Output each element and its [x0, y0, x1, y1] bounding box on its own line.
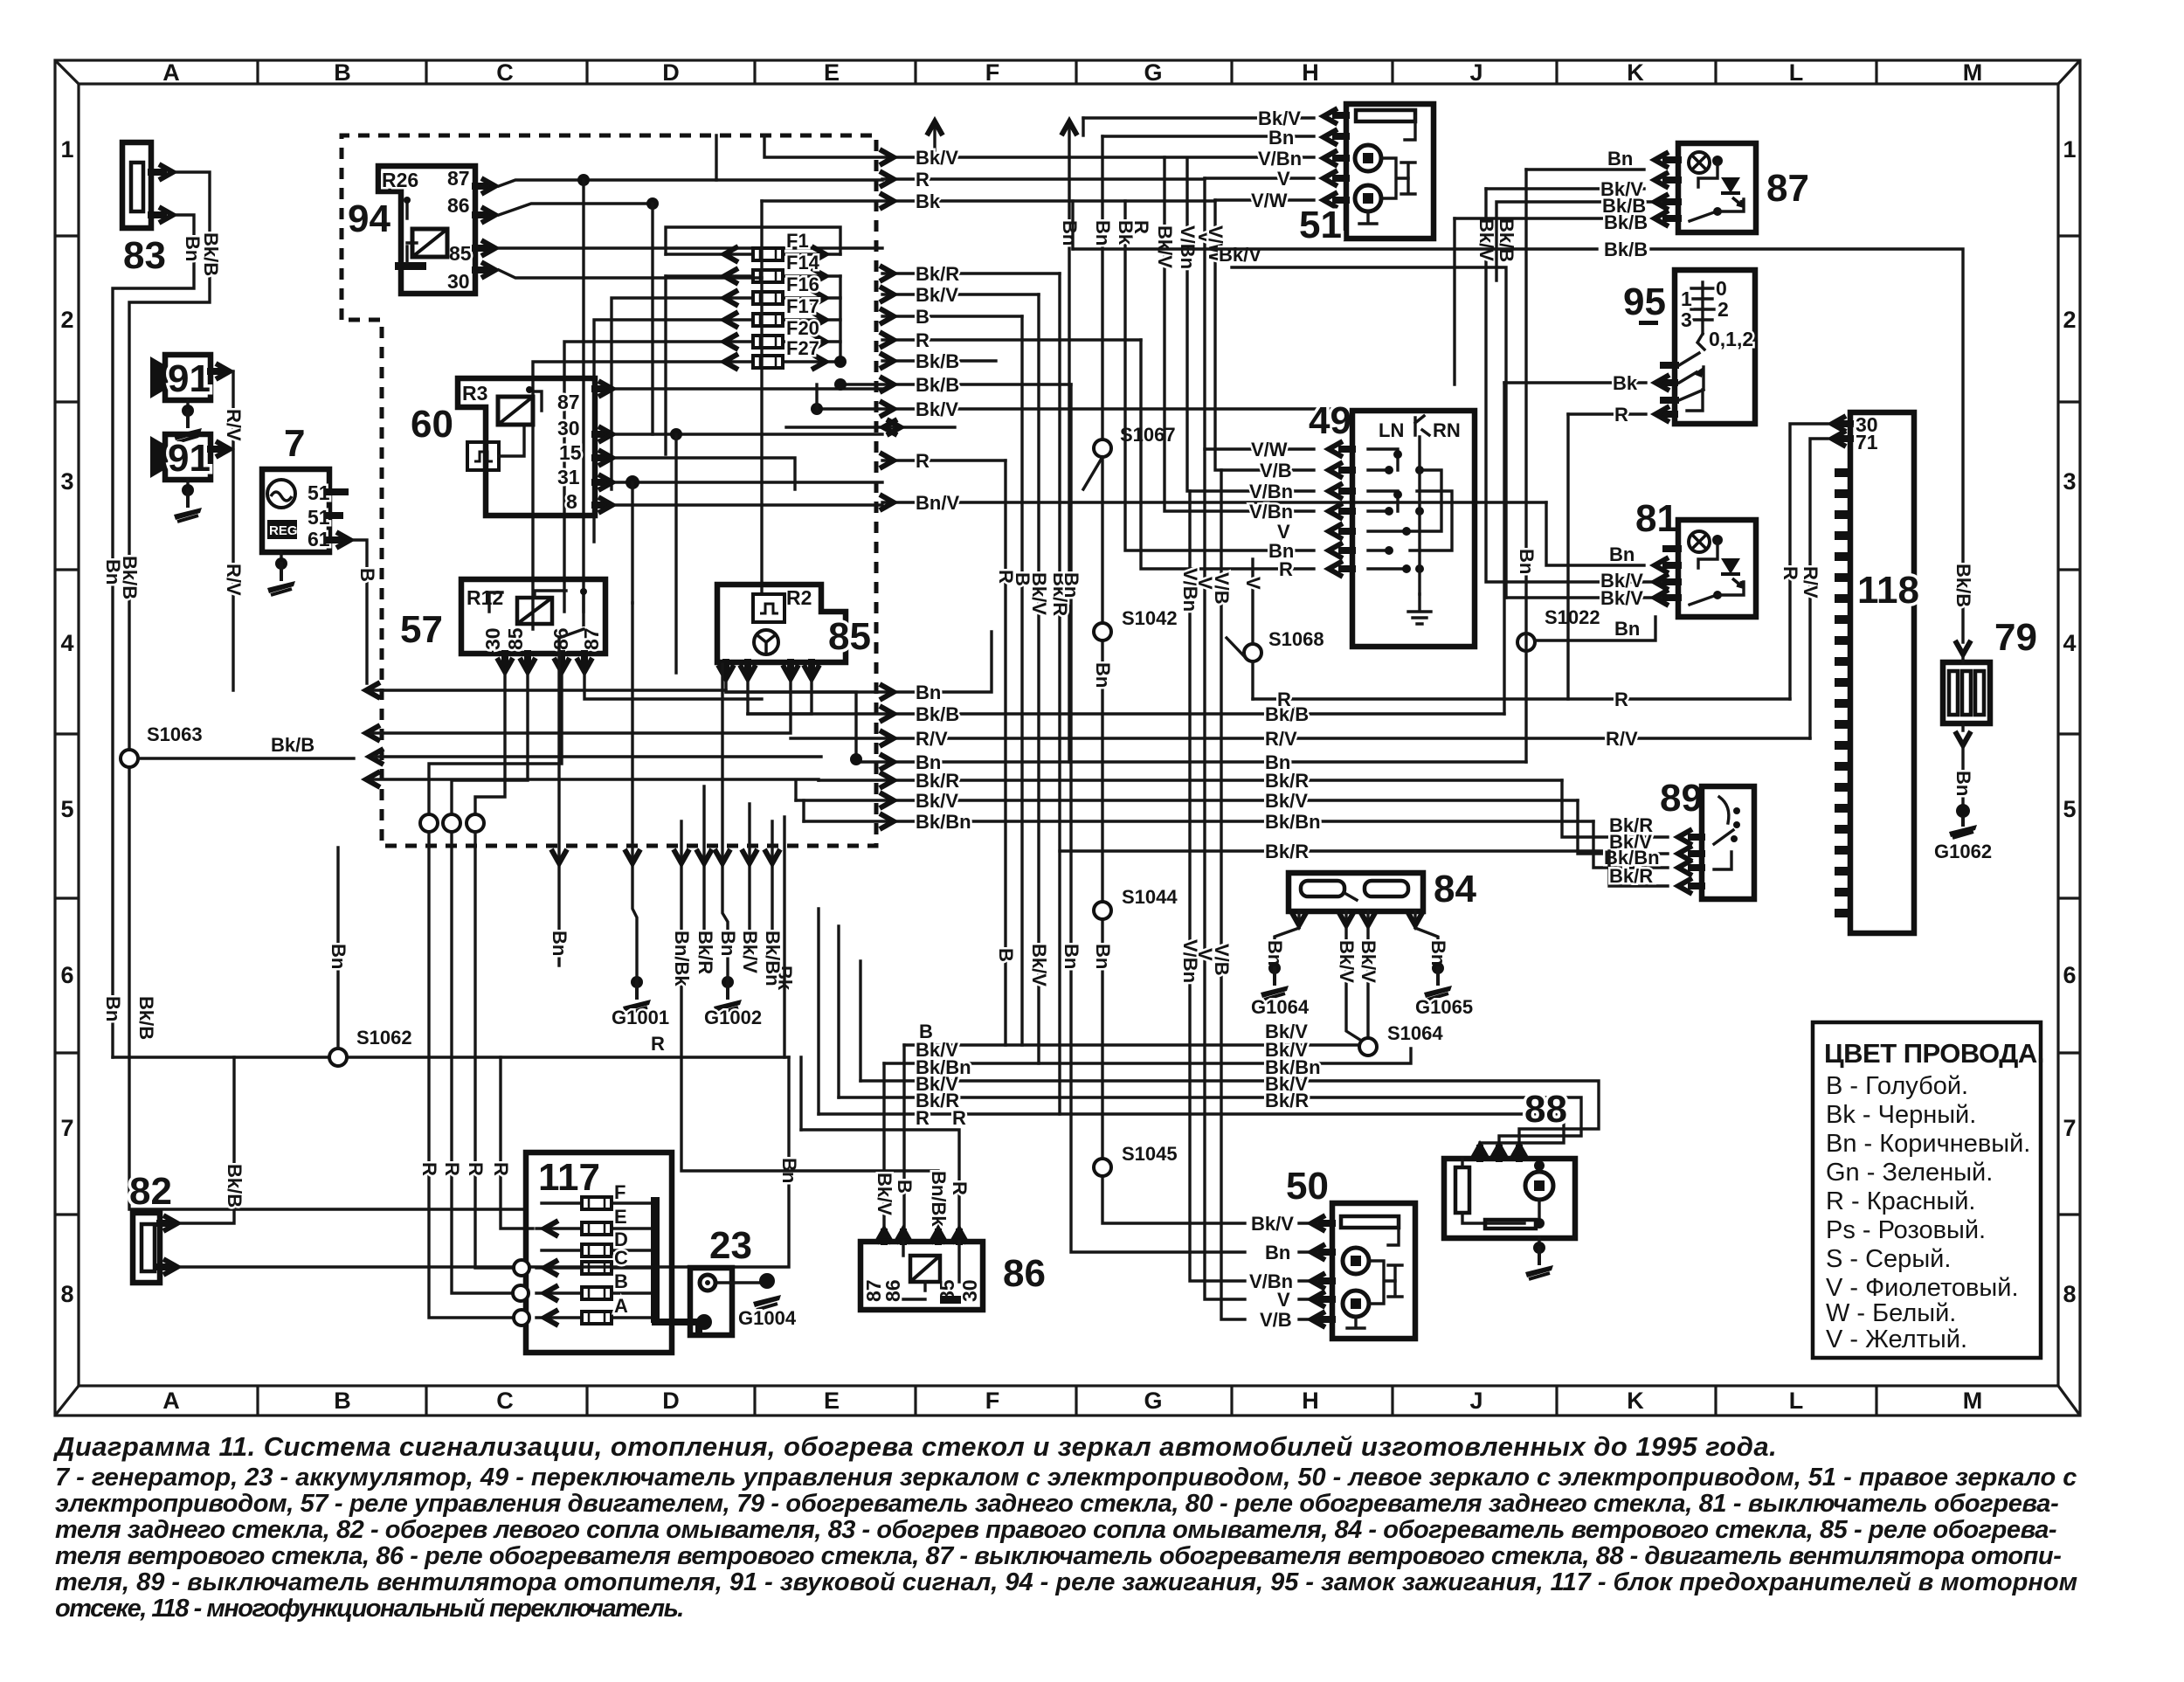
- svg-text:C: C: [496, 59, 514, 86]
- svg-text:Bn/Bk: Bn/Bk: [928, 1171, 950, 1227]
- svg-text:R: R: [1277, 689, 1291, 710]
- ground G1062: [1956, 804, 1970, 818]
- svg-text:S1064: S1064: [1387, 1022, 1443, 1044]
- wire Bk vertical: [1125, 201, 1314, 550]
- wire R bottom to 86: [801, 1130, 959, 1230]
- svg-text:Bk/V: Bk/V: [874, 1173, 895, 1215]
- svg-text:Bk/V: Bk/V: [1219, 244, 1261, 266]
- wire Bk/V to 87 pin2: [1486, 187, 1644, 190]
- svg-text:E: E: [614, 1206, 627, 1228]
- svg-text:50: 50: [1286, 1165, 1329, 1208]
- fuse row B: [536, 1291, 651, 1294]
- svg-text:Bk/R: Bk/R: [1265, 841, 1309, 862]
- wire R vertical to 49: [1141, 340, 1314, 569]
- junction dot: [646, 197, 659, 210]
- ground G1064: [1261, 962, 1289, 1000]
- relay 85 pins down: [726, 662, 812, 671]
- wire Bn vertical with up arrow: [1068, 125, 1070, 762]
- svg-text:Bk/V: Bk/V: [1358, 940, 1379, 983]
- svg-text:F20: F20: [786, 317, 819, 339]
- svg-text:86: 86: [447, 194, 470, 217]
- relay 57 coil: [517, 598, 552, 624]
- svg-text:S1062: S1062: [356, 1027, 412, 1049]
- svg-text:A: A: [614, 1295, 628, 1317]
- fuse F16: [666, 273, 840, 306]
- fuse row A: [536, 1316, 651, 1319]
- wire Bk/Bn mid: [804, 820, 1593, 822]
- svg-text:F1: F1: [786, 230, 809, 252]
- component 82 heated washer jet left: [129, 1170, 177, 1283]
- svg-text:Bn: Bn: [1427, 940, 1449, 966]
- svg-text:57: 57: [400, 608, 443, 651]
- wire 94 pin87 to R bus: [499, 180, 882, 186]
- wire Bk/Bn down: [771, 821, 773, 944]
- svg-text:23: 23: [709, 1224, 752, 1267]
- svg-text:15: 15: [559, 441, 582, 464]
- ignition 95 box: [1675, 270, 1755, 424]
- svg-text:Bk/B: Bk/B: [1952, 564, 1974, 607]
- wire V vertical: [1205, 178, 1314, 449]
- relay 86 arrows into box: [876, 1229, 892, 1243]
- svg-text:R - Красный.: R - Красный.: [1826, 1187, 1975, 1215]
- mirror 51 motor 2: [1355, 185, 1381, 211]
- svg-text:51: 51: [1299, 204, 1342, 246]
- wire Bn middle vertical to 50: [1071, 384, 1322, 1252]
- switch 87 diode: [1721, 177, 1743, 206]
- wire Bk/B from 83 upper pin: [129, 172, 526, 1209]
- wire Bk/V mid: [796, 799, 1578, 801]
- row numbers left: [60, 136, 73, 1307]
- column dividers top band: [258, 60, 1876, 84]
- svg-text:Bk/Bn: Bk/Bn: [762, 931, 784, 986]
- svg-text:Bn: Bn: [1092, 662, 1114, 688]
- relay 94 switch: [405, 203, 408, 218]
- svg-text:Bk/Bn: Bk/Bn: [1265, 811, 1321, 833]
- svg-text:Bn: Bn: [549, 931, 570, 956]
- fan 88 motor: [1525, 1172, 1553, 1200]
- wire Bk/B row: [882, 359, 996, 362]
- wire R/V from horns down: [232, 371, 234, 690]
- wire Bk/V bottom2: [839, 1097, 1581, 1152]
- svg-text:3: 3: [2063, 468, 2076, 495]
- svg-text:V/Bn: V/Bn: [1179, 939, 1201, 983]
- relay 94 pins: [475, 186, 487, 270]
- relay 85 box: [717, 585, 846, 662]
- node S1044: [1094, 902, 1111, 919]
- wire Bk/Bn to 89 pin3: [1593, 821, 1668, 868]
- relay 86 box: [860, 1242, 983, 1310]
- svg-text:V/Bn: V/Bn: [1249, 501, 1293, 523]
- heater 79 box: [1943, 662, 1990, 723]
- relay 85 fan circle: [754, 630, 778, 654]
- wire 94 pin86: [499, 204, 653, 215]
- wire harness line 2: [371, 682, 791, 733]
- node S1042: [1094, 623, 1111, 640]
- svg-text:Bk/V: Bk/V: [916, 790, 958, 812]
- relay 94 box: [378, 166, 475, 294]
- svg-text:R: R: [949, 1181, 971, 1195]
- svg-text:S1068: S1068: [1268, 628, 1324, 650]
- svg-text:электроприводом, 57 - реле упр: электроприводом, 57 - реле управления дв…: [55, 1490, 2058, 1518]
- heater 84 box: [1289, 873, 1423, 911]
- svg-text:Bk/V: Bk/V: [916, 398, 958, 420]
- svg-text:J: J: [1469, 59, 1482, 86]
- component 83 heated washer jet right: [122, 142, 173, 277]
- wire Bk/R low: [1060, 849, 1609, 852]
- wire Bk/B from S1063 to connector: [138, 757, 354, 759]
- svg-text:R/V: R/V: [1800, 566, 1821, 599]
- vertical mesh wires center-left: [632, 135, 762, 673]
- svg-text:2: 2: [60, 307, 73, 333]
- switch 49 box: [1352, 411, 1475, 647]
- svg-text:Bk/Bn: Bk/Bn: [916, 811, 971, 833]
- svg-text:2: 2: [1717, 298, 1729, 321]
- border corner diagonals: [55, 60, 2080, 1416]
- svg-text:Bk/V: Bk/V: [739, 931, 761, 973]
- wire Bn S1022 to 81: [1535, 617, 1655, 640]
- svg-text:91: 91: [168, 357, 211, 400]
- svg-text:2: 2: [2063, 307, 2076, 333]
- svg-text:31: 31: [557, 466, 580, 488]
- row dividers right band: [2058, 236, 2080, 1215]
- svg-text:8: 8: [566, 490, 577, 513]
- switch 81 pins: [1666, 549, 1678, 598]
- wire Bk/V bottom: [884, 1049, 1411, 1063]
- svg-text:87: 87: [580, 627, 603, 650]
- wire Bk/R bottom: [819, 1114, 1564, 1152]
- wire Bk/B long row to M column: [1073, 249, 1963, 642]
- switch 89 box: [1702, 786, 1754, 899]
- svg-text:R: R: [952, 1107, 966, 1129]
- wire R middle vertical: [1004, 460, 1006, 1045]
- svg-text:Bk/V: Bk/V: [1600, 587, 1643, 609]
- wire B bottom: [904, 1043, 1363, 1046]
- wire Bk/B from 82 upper pin up: [181, 1057, 234, 1223]
- svg-text:Bn: Bn: [1265, 1242, 1290, 1263]
- svg-text:Bk/V: Bk/V: [1476, 218, 1497, 261]
- svg-text:B: B: [995, 948, 1017, 962]
- svg-text:F16: F16: [786, 273, 819, 295]
- svg-text:R: R: [1279, 558, 1293, 580]
- svg-text:E: E: [824, 59, 840, 86]
- svg-text:S1022: S1022: [1545, 606, 1600, 628]
- svg-text:88: 88: [1524, 1088, 1567, 1131]
- wire Bn to 87 pin1: [1526, 168, 1644, 170]
- svg-text:G1064: G1064: [1251, 996, 1310, 1018]
- fuse row F: [542, 1201, 651, 1204]
- svg-text:F27: F27: [786, 337, 819, 359]
- svg-text:R2: R2: [786, 586, 812, 609]
- fuse F17: [666, 295, 840, 328]
- column dividers bottom band: [258, 1386, 1876, 1416]
- wire V/B riser to 50: [1221, 470, 1322, 1319]
- relay 94 coil: [412, 229, 447, 257]
- svg-text:82: 82: [129, 1170, 172, 1213]
- wire Bn/V row: [882, 501, 1546, 503]
- svg-text:A: A: [162, 1388, 180, 1414]
- ground under 7: [280, 552, 282, 564]
- switch 89 pins: [1691, 837, 1702, 886]
- svg-text:B - Голубой.: B - Голубой.: [1826, 1072, 1968, 1100]
- svg-text:7: 7: [284, 422, 305, 465]
- svg-text:Bk/B: Bk/B: [1496, 218, 1517, 262]
- svg-text:R: R: [441, 1162, 463, 1176]
- wire V/Bn vertical: [1187, 158, 1314, 491]
- svg-text:REG.: REG.: [269, 523, 301, 538]
- svg-text:V/Bn: V/Bn: [1179, 568, 1201, 612]
- svg-text:Bn: Bn: [328, 944, 349, 969]
- svg-text:Bn: Bn: [1061, 944, 1082, 969]
- switch 81 bulb: [1689, 531, 1710, 552]
- horn 91 upper: [150, 355, 230, 400]
- svg-text:K: K: [1627, 1388, 1644, 1414]
- svg-text:B: B: [334, 1388, 351, 1414]
- wire Bn mid2: [856, 760, 1526, 763]
- mirror 51 pins: [1336, 115, 1346, 200]
- svg-text:1: 1: [60, 136, 73, 163]
- svg-text:Bk/V: Bk/V: [1028, 944, 1050, 986]
- wire Bk/R to 89 pin1: [1562, 780, 1668, 837]
- svg-text:RN: RN: [1433, 419, 1461, 441]
- node S1062: [329, 1049, 347, 1066]
- svg-text:87: 87: [447, 167, 470, 190]
- wire Bk/B row2: [840, 383, 1071, 385]
- relay 60 box: [458, 378, 595, 516]
- svg-text:F17: F17: [786, 295, 819, 317]
- svg-text:Bk/B: Bk/B: [1604, 239, 1648, 260]
- svg-text:G: G: [1144, 1388, 1162, 1414]
- svg-text:30: 30: [481, 627, 504, 650]
- node S1068: [1244, 644, 1261, 661]
- heater 84 pins: [1299, 911, 1415, 918]
- svg-text:81: 81: [1635, 497, 1678, 540]
- switch 87 contact: [1690, 212, 1714, 221]
- ground under 88: [1538, 1238, 1540, 1248]
- long horizontal wire with S1062: [113, 1056, 789, 1058]
- svg-text:R: R: [916, 169, 930, 190]
- svg-text:Bn: Bn: [1268, 127, 1294, 149]
- svg-text:C: C: [614, 1247, 628, 1269]
- svg-text:R/V: R/V: [1606, 728, 1638, 750]
- row numbers right: [2063, 136, 2076, 1307]
- svg-text:Bk/V: Bk/V: [1336, 940, 1358, 983]
- fuse left feed wires: [533, 276, 666, 629]
- svg-text:1: 1: [2063, 136, 2076, 163]
- svg-text:Bn/V: Bn/V: [916, 492, 959, 514]
- svg-text:Bk/B: Bk/B: [135, 996, 157, 1040]
- svg-text:Bn: Bn: [1092, 944, 1114, 969]
- wire Bk/V middle vertical: [1037, 294, 1040, 1063]
- wire B from 7 pin61: [354, 540, 367, 683]
- ground under 91 upper: [186, 400, 189, 411]
- wire Bk/B short line to 87: [1232, 267, 1506, 598]
- switch 49 pins: [1342, 449, 1352, 569]
- svg-text:87: 87: [557, 391, 580, 413]
- svg-text:G1065: G1065: [1415, 996, 1473, 1018]
- svg-text:7: 7: [2063, 1115, 2076, 1141]
- svg-text:7: 7: [60, 1115, 73, 1141]
- svg-text:3: 3: [1681, 308, 1692, 331]
- svg-text:6: 6: [60, 962, 73, 988]
- svg-text:F: F: [985, 1388, 1000, 1414]
- svg-text:K: K: [1627, 59, 1644, 86]
- svg-text:8: 8: [2063, 1281, 2076, 1307]
- ignition 95 position ladder: [1691, 282, 1714, 334]
- svg-text:5: 5: [60, 796, 73, 822]
- svg-text:B: B: [614, 1270, 628, 1292]
- switch 118 pins 30 71: [1840, 424, 1850, 439]
- fuse row E: [536, 1227, 651, 1229]
- wire 94 pin85: [499, 246, 882, 249]
- svg-text:G: G: [1144, 59, 1162, 86]
- relay 60 pins: [595, 389, 605, 505]
- svg-text:B: B: [334, 59, 351, 86]
- mirror 50 motor 2: [1343, 1291, 1369, 1317]
- svg-text:Bk/R: Bk/R: [916, 770, 959, 792]
- wire battery to ground G1004: [715, 1281, 764, 1284]
- fuse F27: [666, 337, 840, 370]
- svg-text:94: 94: [348, 197, 390, 240]
- wire Bn to G1065: [1415, 928, 1438, 965]
- svg-text:B: B: [894, 1180, 916, 1194]
- 86 connector risers: [884, 1045, 904, 1230]
- svg-text:4: 4: [2063, 630, 2076, 656]
- svg-text:4: 4: [60, 630, 73, 656]
- svg-text:L: L: [1789, 1388, 1804, 1414]
- svg-text:D: D: [662, 59, 680, 86]
- fuse F14: [666, 252, 840, 284]
- fuse feed rail top: [666, 227, 840, 362]
- wire Bn from 82 lower pin to right: [181, 1057, 789, 1267]
- svg-text:Bn: Bn: [1059, 220, 1081, 246]
- svg-text:Bk/B: Bk/B: [200, 232, 222, 276]
- svg-text:Bk/B: Bk/B: [1604, 211, 1648, 233]
- svg-text:0,1,2: 0,1,2: [1709, 328, 1753, 350]
- svg-text:Bk/R: Bk/R: [1265, 770, 1309, 792]
- wire Bk/R middle vertical: [1058, 273, 1061, 1114]
- svg-text:S1063: S1063: [147, 723, 203, 745]
- relay 57 pins down: [505, 654, 584, 664]
- svg-text:87: 87: [1766, 167, 1809, 210]
- svg-text:R: R: [916, 1107, 930, 1129]
- svg-text:M: M: [1963, 1388, 1983, 1414]
- wire Bn/Bk down to 86: [681, 821, 938, 1230]
- svg-text:S1042: S1042: [1122, 607, 1178, 629]
- mirror 50 heater element: [1341, 1216, 1399, 1228]
- heater 84 element left: [1301, 881, 1344, 896]
- wire Bn down to G1002: [714, 976, 742, 1014]
- svg-text:Ps - Розовый.: Ps - Розовый.: [1826, 1216, 1986, 1244]
- wire Bk/V vertical K column: [1486, 189, 1668, 582]
- wire Bk/V row2: [882, 293, 1039, 295]
- wire B row: [882, 315, 1022, 317]
- junction dots on 60 wires: [670, 428, 682, 440]
- wire 51 pin2 Bn: [1102, 135, 1314, 137]
- vertical from 94-86 dot down: [651, 204, 653, 434]
- fuse row C: [536, 1266, 651, 1269]
- svg-text:8: 8: [60, 1281, 73, 1307]
- switch 118 box: [1850, 412, 1914, 933]
- svg-text:Bn - Коричневый.: Bn - Коричневый.: [1826, 1130, 2030, 1158]
- svg-text:H: H: [1302, 1388, 1319, 1414]
- wire Bk/B mid: [748, 712, 1504, 715]
- svg-text:A: A: [162, 59, 180, 86]
- wire 85 pin2 down: [746, 682, 749, 714]
- svg-text:V/Bn: V/Bn: [1249, 481, 1293, 502]
- node S1022: [1517, 633, 1535, 651]
- svg-text:V/W: V/W: [1251, 439, 1288, 460]
- wire R row2: [882, 338, 1141, 341]
- wire 87 pin3 line: [1496, 202, 1668, 280]
- fuse bus bar right: [651, 1197, 660, 1323]
- node S1064: [1359, 1038, 1377, 1056]
- border frame inner: [79, 84, 2058, 1386]
- wire R top: [882, 178, 1314, 179]
- svg-text:Bk/V: Bk/V: [916, 147, 958, 169]
- relay 86 coil: [910, 1256, 940, 1282]
- wire 85 pin1 to B junction: [726, 682, 856, 759]
- svg-text:G1062: G1062: [1934, 841, 1992, 862]
- node S1063: [121, 750, 138, 767]
- svg-text:L: L: [1789, 59, 1804, 86]
- svg-text:R: R: [418, 1162, 440, 1176]
- ground G1065: [1424, 962, 1452, 1000]
- wire Bn vertical S-chain: [1102, 136, 1322, 1223]
- relay 60 switch detail: [535, 391, 542, 411]
- svg-text:118: 118: [1857, 569, 1919, 612]
- wire V/W vertical: [1215, 200, 1314, 470]
- relay 60 pulse unit: [467, 442, 499, 470]
- svg-text:G1002: G1002: [704, 1007, 762, 1028]
- wire R/V up to 118 pin71: [1810, 439, 1828, 738]
- relay 85 pulse unit: [753, 594, 784, 622]
- svg-text:5: 5: [2063, 796, 2076, 822]
- svg-text:85: 85: [504, 627, 527, 650]
- switch 81 box: [1678, 520, 1756, 617]
- svg-text:30: 30: [557, 417, 580, 440]
- fuse F1: [666, 230, 840, 262]
- svg-text:R/V: R/V: [223, 409, 245, 441]
- wire V riser to 50: [1205, 449, 1322, 1299]
- svg-text:R/V: R/V: [223, 564, 245, 596]
- left risers for bottom bank: [784, 817, 860, 1130]
- wire B middle vertical: [1020, 316, 1023, 1045]
- wire Bk/R row: [882, 272, 1060, 274]
- svg-text:R: R: [490, 1162, 512, 1176]
- svg-text:B: B: [356, 568, 378, 582]
- wire Bk top: [762, 200, 1314, 201]
- svg-text:71: 71: [1856, 431, 1878, 453]
- wire harness line S1063 row: [375, 755, 821, 758]
- svg-text:86: 86: [881, 1279, 904, 1302]
- wire R/V mid: [791, 737, 1810, 739]
- wire Bn below 79: [1955, 731, 1971, 745]
- svg-text:Bk/B: Bk/B: [916, 350, 959, 372]
- switch 89 positions: [1719, 797, 1729, 823]
- svg-text:E: E: [824, 1388, 840, 1414]
- svg-text:R: R: [1614, 404, 1628, 426]
- wire Bn from 83 lower pin: [113, 215, 194, 1057]
- svg-text:теля ветрового стекла, 86 - ре: теля ветрового стекла, 86 - реле обогрев…: [55, 1542, 2061, 1570]
- wire 85 pin4 down: [748, 682, 812, 714]
- svg-text:0: 0: [1716, 277, 1727, 300]
- fuse row D: [542, 1249, 651, 1251]
- svg-text:V/B: V/B: [1260, 460, 1292, 481]
- svg-text:Bk/R: Bk/R: [916, 263, 959, 285]
- switch 81 contact: [1690, 596, 1714, 605]
- wire Bk/V vertical long: [1165, 157, 1314, 511]
- wire Bk/R down: [702, 786, 705, 961]
